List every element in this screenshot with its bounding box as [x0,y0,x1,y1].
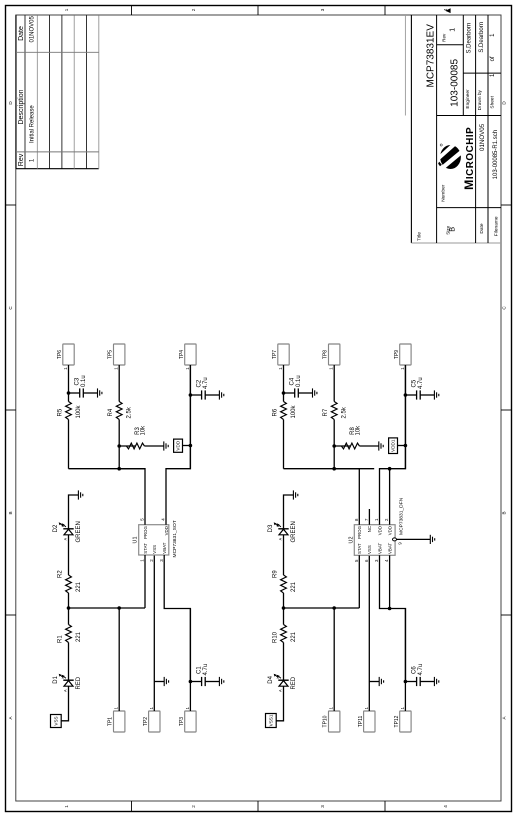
svg-text:VDD: VDD [387,526,392,535]
svg-text:Rev: Rev [441,33,446,42]
Microchip logo icon [438,142,464,171]
svg-text:1: 1 [149,707,154,710]
wire D4 to R10 [283,643,285,681]
svg-text:4.7u: 4.7u [418,377,424,389]
svg-text:1: 1 [329,707,334,710]
svg-text:Engineer: Engineer [465,89,471,109]
wire bus vertical [284,468,375,470]
svg-text:MCP73831EV: MCP73831EV [426,24,437,88]
svg-text:S.Dearborn: S.Dearborn [466,23,472,54]
ground [164,441,168,450]
svg-text:VSS1: VSS1 [268,714,273,726]
wire TP5 to R4 [118,365,120,402]
wire TP1 to STAT net [118,608,120,711]
wire TP3 VBAT row [189,609,191,712]
power net box VSS [51,715,62,728]
test point TP7 [272,344,289,370]
svg-text:4.7u: 4.7u [203,377,209,389]
svg-text:103-00085-R1.sch: 103-00085-R1.sch [493,130,499,179]
U2 pin 8 PROG [334,469,359,525]
svg-text:NC: NC [367,526,372,532]
junction TP/STAT [117,606,121,610]
svg-text:10k: 10k [141,425,147,436]
U2 pin 4 VBAT [389,555,391,608]
svg-text:C2: C2 [197,379,203,387]
svg-text:2.5k: 2.5k [342,406,348,418]
svg-text:1: 1 [185,367,190,370]
capacitor C5 4.7u [405,390,434,399]
svg-text:VDD: VDD [176,440,181,450]
ground [379,677,383,686]
svg-text:MCP73831_SOT: MCP73831_SOT [172,520,178,557]
wire VSS1 to D4 anode [276,686,283,721]
svg-text:TP10: TP10 [323,715,329,727]
test point TP2 [143,707,160,733]
svg-text:0.1u: 0.1u [296,375,302,387]
svg-text:GREEN: GREEN [291,521,297,542]
capacitor C6 4.7u [405,677,434,686]
wire R7 to bus [333,420,335,469]
wire [283,393,285,402]
svg-text:of: of [490,56,496,61]
svg-text:1: 1 [114,367,119,370]
svg-text:TP7: TP7 [272,350,278,359]
wire VDD stub [183,445,191,447]
svg-text:Description: Description [18,89,25,124]
wire R6 to bus [283,420,285,469]
resistor R4 2.5k [116,402,122,420]
wire TP12 VBAT row [404,609,406,712]
wire pin 9 to ground [396,538,430,540]
junction VDD1 tap [404,444,408,448]
svg-text:1: 1 [278,367,283,370]
op-amp substitute: charger IC U1 MCP73831_SOT [139,525,169,555]
svg-text:R6: R6 [273,408,279,416]
wire R4 to bus [118,420,120,469]
junction R3 tap [117,444,121,448]
test point TP1 [108,707,125,733]
wire R2 to D2 [68,535,70,575]
test point TP11 [358,707,375,733]
svg-text:Title: Title [416,232,422,241]
svg-text:4.7u: 4.7u [418,664,424,676]
power net box VDD [174,439,183,452]
junction C1 tap [189,680,193,684]
resistor R6 100k [281,402,287,420]
wire to R3 [119,445,135,447]
svg-text:Rev: Rev [18,153,25,166]
resistor R2 221 [66,575,72,593]
test point TP10 [323,707,340,733]
svg-text:4.7u: 4.7u [203,664,209,676]
svg-text:Number: Number [441,184,447,201]
svg-text:0.1u: 0.1u [81,375,87,387]
wire D2 cathode to ground [69,495,79,529]
wire TP9 VDD row [404,365,406,469]
svg-text:TP12: TP12 [394,715,400,727]
ground [293,490,297,499]
wire R10 to R9 [283,593,285,625]
svg-text:MICROCHIP: MICROCHIP [462,127,476,190]
U1 pin 1 STAT [144,555,146,608]
ground [430,535,434,544]
svg-text:R5: R5 [58,408,64,416]
svg-text:MCP73831_DFN: MCP73831_DFN [398,497,404,535]
svg-text:VSS: VSS [53,716,58,725]
wire TP2 VSS net [153,555,155,711]
svg-text:100k: 100k [76,404,82,418]
test point TP8 [323,344,340,370]
junction TP/STAT [332,606,336,610]
svg-text:100k: 100k [291,404,297,418]
ground [313,388,317,397]
svg-text:3: 3 [320,805,325,808]
svg-text:1: 1 [63,367,68,370]
U2 pin 9 exposed pad [393,538,397,541]
svg-text:Date: Date [479,223,485,233]
margin arrow marker [445,8,450,13]
junction bus/PROG row [332,467,336,471]
junction C5 tap [404,393,408,397]
U1 pin 5 PROG [119,469,145,525]
ground [219,390,223,399]
wire D3 cathode to ground [284,495,294,529]
svg-text:PROG: PROG [357,525,362,539]
svg-text:k: k [276,525,280,527]
resistor R1 221 [66,625,72,643]
svg-text:RED: RED [291,676,297,689]
svg-text:R4: R4 [108,408,114,416]
junction R1/R2/STAT [67,606,71,610]
resistor R7 2.5k [331,402,337,420]
svg-text:D1: D1 [53,675,59,683]
wire ground tap [154,681,164,683]
U2 pin 2 VDD [389,469,391,525]
svg-text:103-00085: 103-00085 [449,59,460,107]
wire VDD1 stub [398,445,406,447]
resistor R5 100k [66,402,72,420]
capacitor C3 0.1u [69,388,98,397]
wire bus vertical [69,468,146,470]
svg-text:3: 3 [320,8,325,11]
svg-text:R10: R10 [272,631,278,643]
ground [98,388,102,397]
svg-text:1: 1 [64,8,69,11]
junction C3 tap [67,391,71,395]
svg-text:D3: D3 [268,524,274,532]
U2 pin 5 STAT [358,555,360,608]
ground [379,441,383,450]
svg-text:1: 1 [400,367,405,370]
svg-text:Drawn by: Drawn by [477,89,483,110]
svg-text:TP3: TP3 [179,717,185,726]
ground [78,490,82,499]
svg-text:221: 221 [76,581,82,592]
junction R8 tap [332,444,336,448]
svg-text:STAT: STAT [357,543,362,554]
svg-text:221: 221 [291,631,297,642]
svg-text:VDD1: VDD1 [391,439,396,452]
svg-text:D4: D4 [268,675,274,683]
svg-text:1: 1 [64,805,69,808]
svg-text:Date: Date [18,26,25,41]
ground [434,677,438,686]
junction bus/PROG row [117,467,121,471]
svg-text:S.Dearborn: S.Dearborn [479,22,485,53]
wire TP6 to C3 [68,365,70,393]
svg-text:B: B [502,511,507,514]
wire [144,445,163,447]
U1 pin 3 VBAT [164,555,190,682]
LED D3 GREEN [268,521,297,542]
svg-text:01NOV05: 01NOV05 [30,15,36,42]
svg-text:1: 1 [400,707,405,710]
title block outline [405,15,501,243]
svg-text:1: 1 [185,707,190,710]
wire STAT vertical circuit2 [284,607,360,609]
svg-text:Sheet: Sheet [489,95,495,108]
svg-text:01NOV05: 01NOV05 [479,123,486,151]
wire R9 to D3 [283,535,285,575]
revision history table [16,15,99,168]
power net box VDD1 [389,438,398,454]
svg-text:R1: R1 [57,635,63,643]
svg-text:GREEN: GREEN [76,521,82,542]
svg-text:STAT: STAT [143,543,148,554]
ground [219,677,223,686]
wire TP8 to R7 [333,365,335,402]
svg-text:1: 1 [364,707,369,710]
test point TP12 [394,707,411,733]
LED D4 RED [268,674,297,692]
wire R5 to bus [68,420,70,469]
svg-text:2: 2 [191,805,196,808]
svg-text:D2: D2 [53,524,59,532]
resistor R3 10k [126,443,144,449]
svg-text:TP6: TP6 [57,350,63,359]
U2 pin 3 VBAT [380,555,406,681]
test point TP6 [57,344,74,370]
test point TP3 [179,707,196,733]
junction C2 tap [189,393,193,397]
svg-text:1: 1 [114,707,119,710]
ground [434,390,438,399]
svg-text:VBAT: VBAT [162,542,167,553]
svg-text:1: 1 [449,28,456,32]
svg-text:2.5k: 2.5k [127,406,133,418]
wire ground tap [369,681,379,683]
resistor R9 221 [281,575,287,593]
svg-text:VBAT: VBAT [377,543,382,554]
capacitor C2 4.7u [190,390,219,399]
svg-text:VSS: VSS [367,545,372,554]
svg-text:RED: RED [76,676,82,689]
svg-text:U1: U1 [133,537,139,544]
resistor R8 10k [341,443,359,449]
svg-text:B: B [8,511,13,514]
wire to R8 [334,445,350,447]
svg-text:R7: R7 [323,408,329,416]
svg-text:1: 1 [329,367,334,370]
svg-text:VBAT: VBAT [387,543,392,554]
wire D1 to R1 [68,643,70,681]
LED D1 RED [53,674,82,692]
LED D2 GREEN [53,521,82,542]
svg-text:TP2: TP2 [143,717,149,726]
ground [164,677,168,686]
svg-text:k: k [61,525,65,527]
svg-text:C6: C6 [412,666,418,674]
wire TP4 VDD row [189,365,191,469]
junction VDD tap [189,444,193,448]
svg-text:k: k [276,677,280,679]
junction VBAT pins 3/4 [388,607,392,611]
U2 pin 1 VDD [380,365,406,525]
wire R1 to R2 [68,593,70,625]
svg-text:C4: C4 [290,377,296,385]
svg-text:TP9: TP9 [394,350,400,359]
svg-text:2: 2 [191,8,196,11]
svg-text:C5: C5 [412,379,418,387]
wire TP10 to STAT net [333,608,335,711]
resistor R10 221 [281,625,287,643]
test point TP5 [108,344,125,370]
svg-text:C3: C3 [75,377,81,385]
svg-text:k: k [61,677,65,679]
svg-text:VDD: VDD [164,526,169,535]
wire VSS to D1 anode [61,686,68,721]
svg-text:TP4: TP4 [179,350,185,359]
svg-text:C1: C1 [197,666,203,674]
charger IC U2 MCP73831_DFN [354,525,395,556]
junction C4 tap [282,391,286,395]
wire TP11 VSS net [368,555,370,711]
junction C6 tap [404,680,408,684]
U2 pin 7 NC (no connect stub) [368,509,370,525]
wire TP7 to C4 [283,365,285,393]
svg-text:221: 221 [76,631,82,642]
svg-text:4: 4 [443,805,448,808]
capacitor C1 4.7u [190,677,219,686]
svg-text:Filename: Filename [494,216,500,236]
wire [359,445,378,447]
svg-text:TP8: TP8 [323,350,329,359]
junction R10/R9/STAT [282,606,286,610]
U1 pin 4 VDD [166,365,190,525]
svg-text:TP1: TP1 [108,717,114,726]
svg-text:TP11: TP11 [358,715,364,727]
junction VDD pins 1/2 [388,467,392,471]
svg-text:R9: R9 [272,570,278,578]
svg-text:R2: R2 [57,570,63,578]
power net box VSS1 [266,714,277,728]
svg-text:B: B [448,227,457,232]
svg-text:TP5: TP5 [108,350,114,359]
svg-text:VSS: VSS [152,545,157,554]
svg-text:10k: 10k [356,425,362,436]
svg-text:PROG: PROG [143,526,148,540]
wire [68,393,70,402]
svg-text:Initial Release: Initial Release [30,105,36,143]
svg-text:VDD: VDD [377,526,382,535]
test point TP9 [394,344,411,370]
test point TP4 [179,344,196,370]
svg-text:221: 221 [291,581,297,592]
svg-text:U2: U2 [348,537,354,544]
wire STAT vertical [69,607,146,609]
capacitor C4 0.1u [284,388,313,397]
